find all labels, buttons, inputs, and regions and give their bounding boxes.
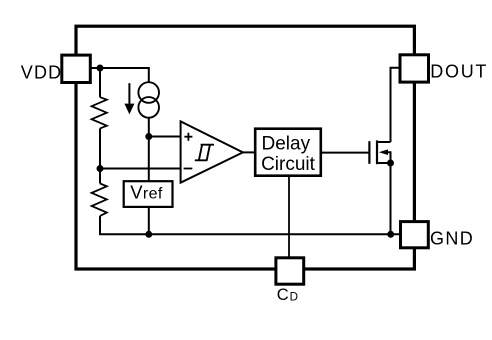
current source I1 (138, 82, 159, 118)
node source / ground rail junction (387, 231, 394, 238)
transistor Q1 body arrow (379, 149, 391, 163)
wire drain to DOUT pin (391, 68, 401, 142)
pin VDD (62, 55, 91, 82)
wire current source bottom to Vref top (148, 117, 150, 181)
svg-text:Circuit: Circuit (261, 154, 316, 175)
svg-text:ref: ref (143, 185, 163, 202)
svg-text:V: V (130, 181, 143, 202)
current direction arrow (124, 83, 134, 114)
wire divider midpoint to comparator inverting input (100, 168, 181, 170)
comparator plus sign (184, 133, 192, 141)
pin DOUT (400, 55, 429, 82)
wire R1 bottom to divider midpoint (99, 128, 101, 168)
node junction at VDD wire / divider top (97, 65, 104, 72)
wire delay circuit output to MOSFET gate (321, 152, 370, 154)
svg-text:D: D (290, 290, 298, 303)
label VDD (21, 63, 63, 83)
wire comparator output to delay circuit (243, 151, 255, 153)
Vref box (124, 181, 173, 207)
wire ground rail to GND pin (99, 233, 401, 235)
transistor Q1 source tap (377, 162, 391, 164)
Delay Circuit box (255, 129, 321, 176)
op-amp U1 comparator triangle (181, 121, 243, 182)
transistor Q1 MOSFET gate bar (368, 141, 370, 164)
svg-text:Delay: Delay (262, 133, 311, 154)
wire to comparator non-inverting input (149, 136, 181, 138)
IC outline border (76, 26, 414, 269)
resistor R2 (lower divider resistor) (92, 184, 107, 216)
pin GND (401, 222, 429, 248)
wire R2 bottom to ground rail (99, 216, 101, 234)
transistor Q1 drain tap (377, 141, 391, 143)
svg-text:VDD: VDD (21, 63, 63, 83)
label GND (430, 229, 474, 249)
wire delay circuit to CD pin (288, 176, 290, 258)
wire midpoint to R2 top (99, 169, 101, 184)
resistor R1 (upper divider resistor) (92, 97, 107, 128)
comparator minus sign (184, 168, 193, 170)
pin CD (276, 258, 304, 284)
wire Vref bottom to ground rail (148, 207, 150, 234)
node comparator non-inverting tap (145, 133, 152, 140)
svg-text:GND: GND (430, 229, 474, 249)
wire VDD pin to current source top (76, 68, 149, 83)
label CD (277, 286, 298, 304)
hysteresis symbol (195, 145, 214, 161)
node divider midpoint junction (97, 165, 104, 172)
label DOUT (430, 62, 488, 82)
wire divider top lead (99, 68, 101, 97)
wire source to ground rail (390, 163, 392, 234)
transistor Q1 channel bar (376, 140, 378, 164)
node source junction (387, 160, 394, 167)
node Vref bottom on ground rail (145, 231, 152, 238)
svg-text:C: C (277, 286, 289, 304)
svg-text:DOUT: DOUT (430, 62, 488, 82)
